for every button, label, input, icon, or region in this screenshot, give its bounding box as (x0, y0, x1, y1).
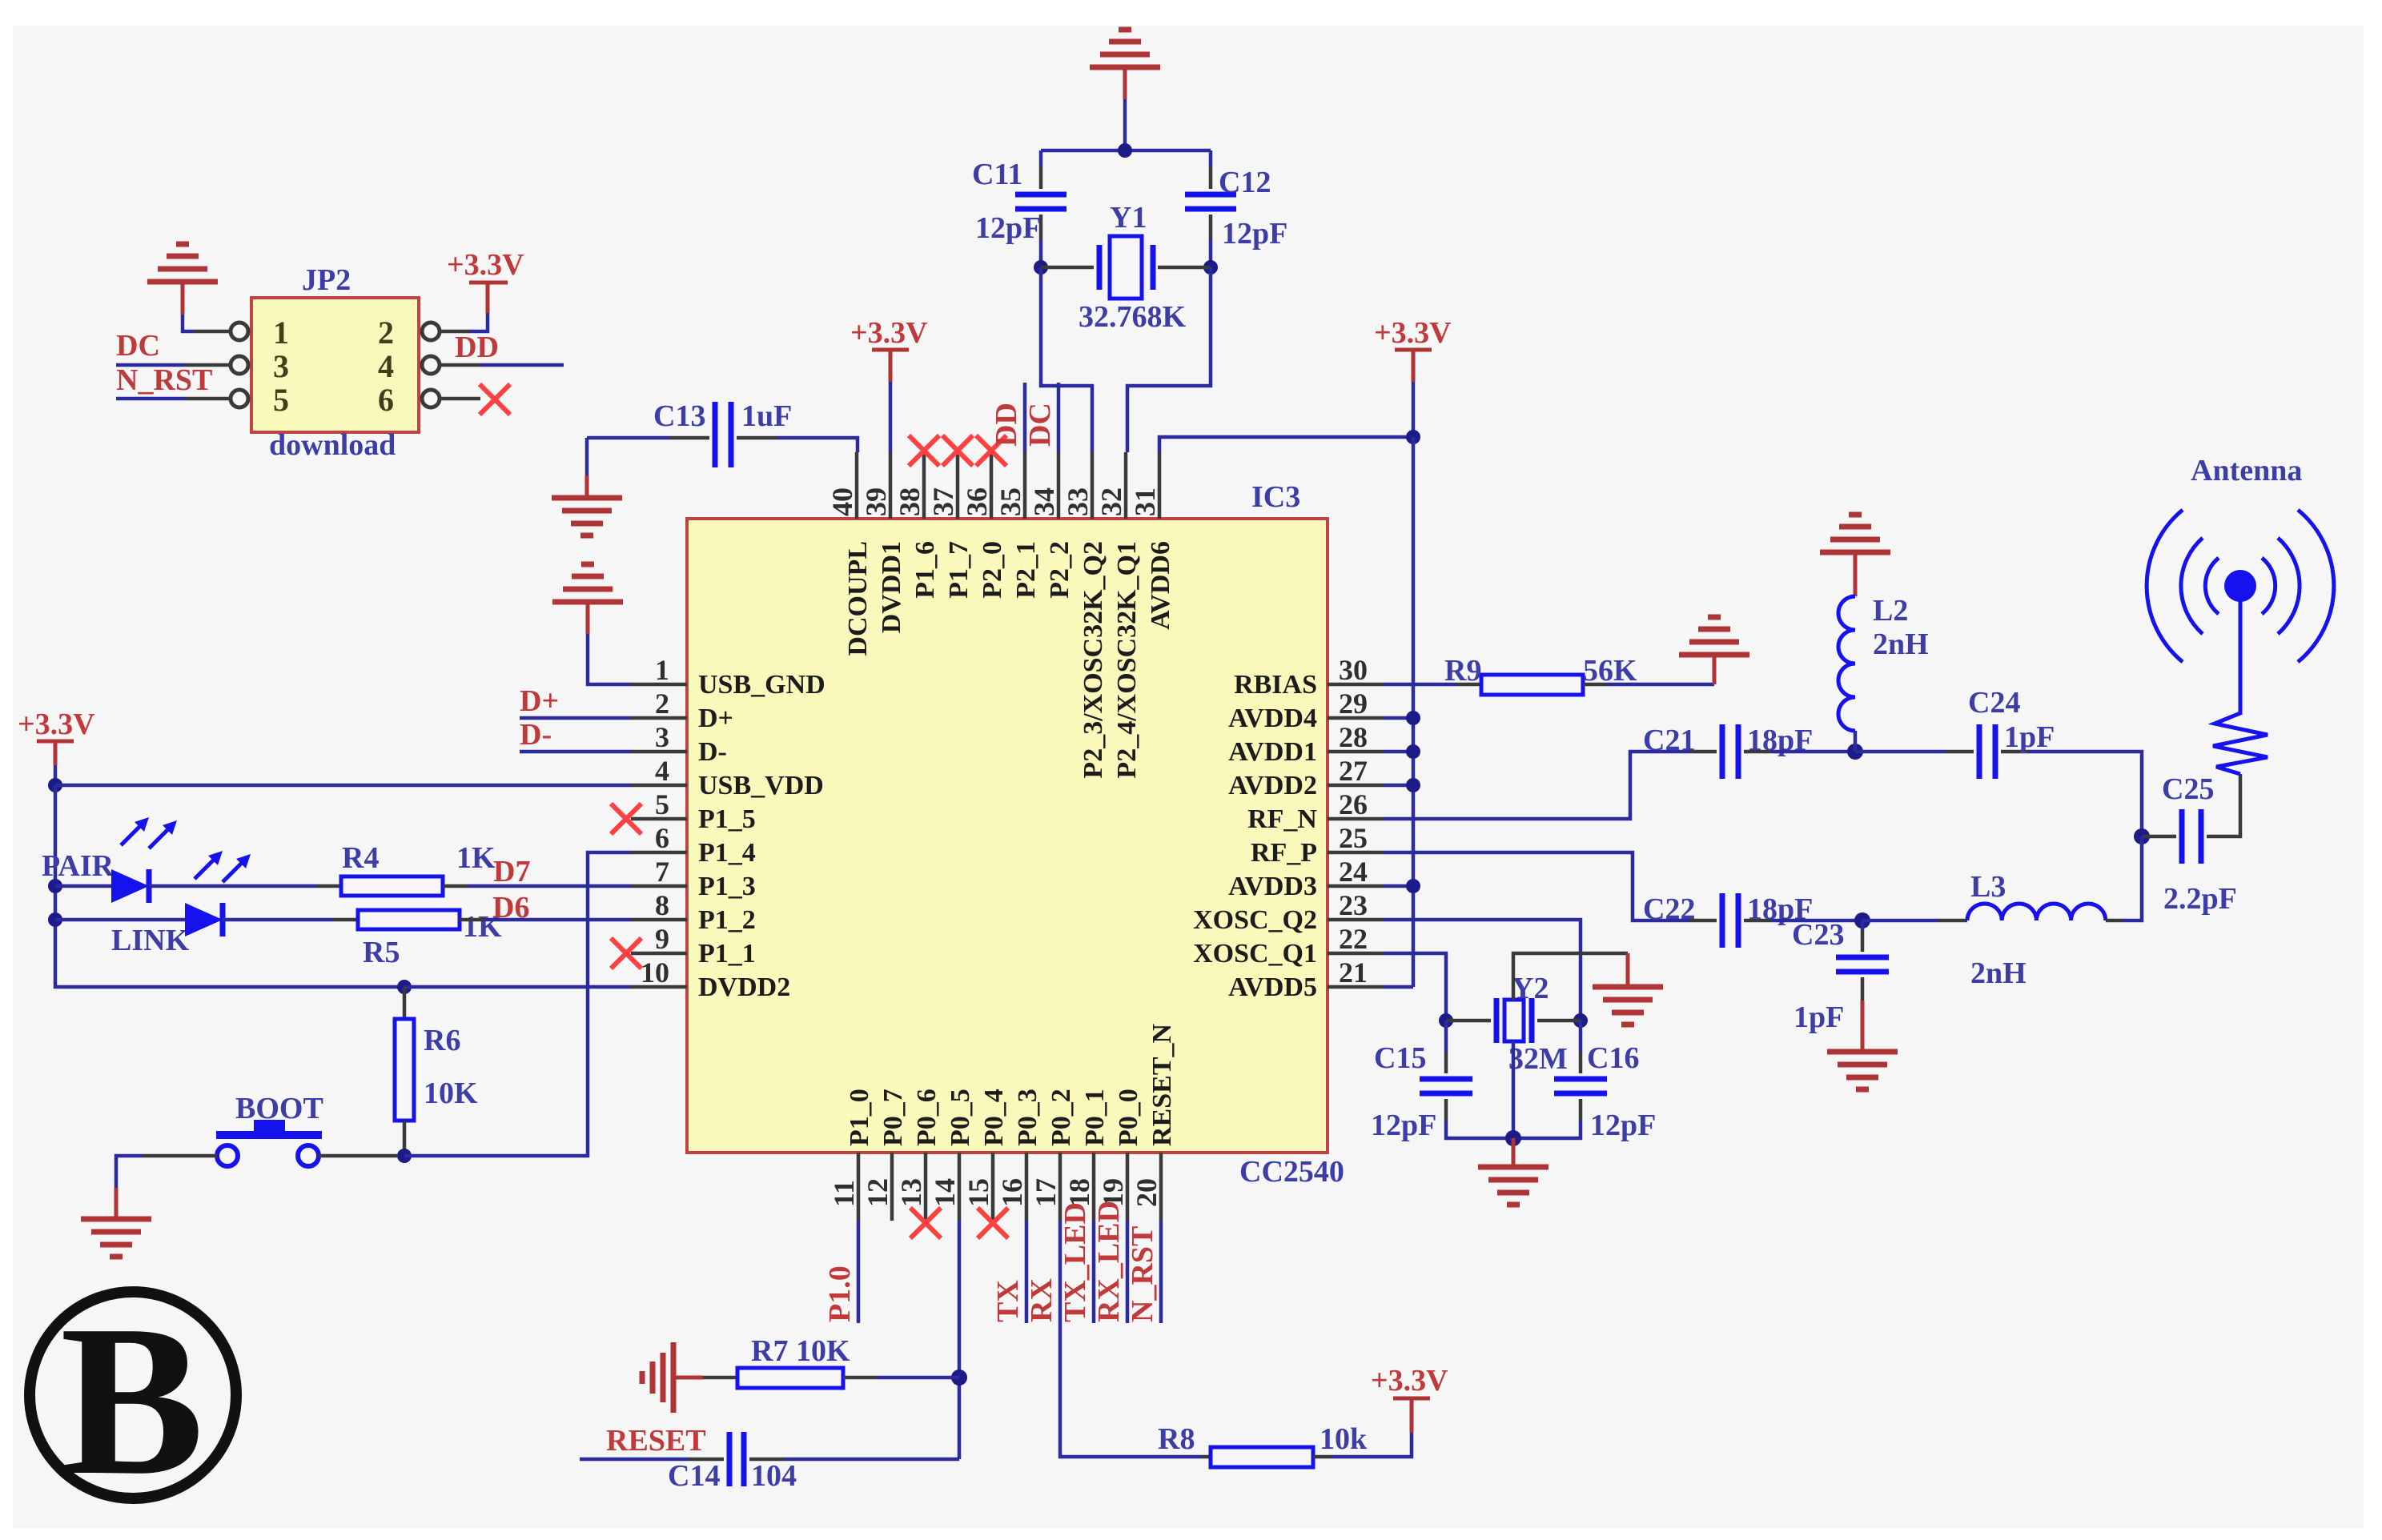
svg-text:C13: C13 (653, 399, 705, 433)
svg-text:P1_2: P1_2 (698, 905, 756, 935)
wire R9 to ground (1607, 683, 1714, 687)
wire C14 to pin14 riser (785, 1458, 959, 1462)
node +3.3V/AVDD rail (1406, 430, 1420, 444)
wire ground to pin 1 (588, 634, 631, 684)
wire pin 26 RF_N to C21 row (1384, 752, 1689, 819)
node Y2 right (1573, 1013, 1588, 1028)
svg-text:16: 16 (996, 1178, 1028, 1207)
node AVDD4 (1406, 711, 1420, 725)
no-connect X on JP2 pin6 (480, 384, 510, 415)
svg-text:C12: C12 (1219, 166, 1271, 199)
IC3 bottom pin numbers (828, 1178, 1163, 1207)
IC3 body (687, 519, 1328, 1153)
svg-text:TX: TX (991, 1280, 1025, 1322)
wire P1.0 stub (857, 1221, 861, 1323)
svg-text:USB_VDD: USB_VDD (698, 771, 824, 800)
svg-text:4: 4 (378, 348, 394, 384)
node AVDD3 (1406, 879, 1420, 893)
svg-text:+3.3V: +3.3V (850, 316, 928, 350)
svg-text:30: 30 (1339, 654, 1368, 686)
svg-text:RBIAS: RBIAS (1234, 670, 1317, 700)
svg-text:R4: R4 (342, 841, 379, 875)
svg-text:28: 28 (1339, 721, 1368, 753)
svg-text:P0_0: P0_0 (1114, 1089, 1143, 1146)
svg-text:Antenna: Antenna (2191, 454, 2302, 487)
wire pin 23 XOSC_Q2 to Y2 (1384, 920, 1581, 1021)
svg-text:R7 10K: R7 10K (751, 1334, 850, 1368)
svg-text:15: 15 (962, 1178, 994, 1207)
svg-text:DD: DD (990, 403, 1023, 447)
node C25 (2134, 828, 2150, 844)
svg-text:XOSC_Q1: XOSC_Q1 (1193, 939, 1317, 969)
node AVDD1 (1406, 744, 1420, 759)
svg-text:5: 5 (273, 382, 289, 418)
svg-text:R8: R8 (1158, 1422, 1195, 1456)
svg-text:1pF: 1pF (1794, 1001, 1844, 1034)
svg-text:RX: RX (1025, 1278, 1058, 1322)
IC3 right pin names (1193, 670, 1317, 1002)
wire left rail down (55, 785, 404, 987)
node BOOT/R6 (397, 1149, 412, 1163)
svg-text:1: 1 (273, 315, 289, 351)
svg-text:P0_4: P0_4 (979, 1089, 1009, 1146)
svg-text:XOSC_Q2: XOSC_Q2 (1193, 905, 1317, 935)
svg-text:P0_5: P0_5 (946, 1089, 975, 1146)
wire +3.3V to pin 39 (889, 382, 893, 452)
wire AVDD bus vertical (1412, 437, 1416, 987)
ground (BOOT) (81, 1219, 151, 1257)
wire JP2 pin6 stub (440, 397, 480, 401)
no-connect X pin 38 (909, 435, 939, 466)
svg-text:DVDD1: DVDD1 (877, 541, 906, 633)
svg-text:C23: C23 (1792, 918, 1844, 952)
JP2 pin circles (231, 323, 248, 340)
no-connect X pin 36 (976, 435, 1006, 466)
+3.3V symbol (R8) (1410, 1398, 1414, 1433)
wire C22 to C23 node (1771, 919, 1862, 923)
wire +3.3V to pin 4 USB_VDD (55, 784, 631, 788)
node C23/L3 (1854, 912, 1870, 928)
svg-text:7: 7 (655, 856, 669, 888)
svg-text:32M: 32M (1508, 1042, 1568, 1076)
svg-text:C16: C16 (1587, 1041, 1639, 1075)
svg-text:USB_GND: USB_GND (698, 670, 825, 700)
svg-text:TX_LED: TX_LED (1058, 1202, 1092, 1322)
svg-text:37: 37 (927, 487, 959, 516)
crystal Y1 32.768K (1041, 266, 1094, 270)
svg-text:P0_6: P0_6 (912, 1089, 942, 1146)
wire C24 to C25 node (2028, 752, 2142, 836)
IC3 top pin numbers (826, 487, 1161, 516)
svg-text:4: 4 (655, 755, 669, 787)
svg-text:AVDD3: AVDD3 (1228, 872, 1317, 901)
svg-text:P1_3: P1_3 (698, 872, 756, 901)
no-connect X pin 15 (978, 1208, 1008, 1238)
svg-text:N_RST: N_RST (116, 363, 212, 397)
resistor R6 10K (403, 987, 407, 1019)
svg-text:17: 17 (1030, 1178, 1062, 1207)
wire DC stub pin 34 (1057, 383, 1061, 452)
svg-text:P1.0: P1.0 (823, 1265, 857, 1322)
wire pin 31 AVDD6 to +3.3V rail (1159, 437, 1413, 452)
svg-text:1uF: 1uF (741, 399, 792, 433)
svg-text:P1_7: P1_7 (944, 541, 974, 599)
svg-text:40: 40 (826, 487, 858, 516)
svg-text:2nH: 2nH (1970, 956, 2027, 990)
svg-text:AVDD5: AVDD5 (1228, 973, 1317, 1002)
IC3 right pin stubs 30-21 (1328, 684, 1384, 987)
svg-text:36: 36 (961, 487, 993, 516)
ground (R9) (1679, 617, 1749, 655)
wire L3 to C25 node (2123, 836, 2142, 920)
svg-text:P0_2: P0_2 (1046, 1089, 1076, 1146)
svg-text:27: 27 (1339, 755, 1368, 787)
inductor L2 2nH (1838, 596, 1855, 731)
wire top rail (1041, 149, 1211, 153)
wire C21 to L2 node (1771, 750, 1855, 754)
wire D+ to pin 2 (520, 716, 631, 720)
svg-text:R5: R5 (363, 936, 400, 969)
wire R5 to pin 8 (484, 918, 631, 922)
ground (C23) (1861, 1001, 1865, 1052)
capacitor C13 1uF (587, 436, 669, 440)
svg-text:IC3: IC3 (1251, 480, 1300, 514)
wire AVDD pin stubs (1384, 716, 1413, 720)
svg-text:21: 21 (1339, 956, 1368, 989)
wire DD stub pin 35 (1023, 383, 1027, 452)
svg-text:22: 22 (1339, 923, 1368, 955)
IC3 top pin stubs 40-31 (857, 452, 1159, 519)
svg-text:14: 14 (929, 1178, 961, 1207)
logo B (30, 1292, 236, 1498)
svg-text:32: 32 (1095, 487, 1127, 516)
svg-text:R6: R6 (424, 1024, 460, 1057)
resistor R5 1K (358, 910, 460, 929)
svg-text:P2_4/XOSC32K_Q1: P2_4/XOSC32K_Q1 (1112, 541, 1142, 779)
svg-text:11: 11 (828, 1180, 860, 1207)
wire N_RST stub (1159, 1221, 1163, 1323)
svg-text:1: 1 (655, 654, 669, 686)
wire JP2 pin2 to +3.3V (471, 313, 488, 331)
no-connect X pin 5 (611, 804, 641, 834)
node +3.3V left (48, 778, 62, 792)
svg-text:2.2pF: 2.2pF (2163, 882, 2237, 916)
svg-text:34: 34 (1028, 487, 1060, 516)
svg-text:23: 23 (1339, 889, 1368, 921)
svg-text:P1_0: P1_0 (845, 1089, 874, 1146)
svg-text:3: 3 (655, 721, 669, 753)
svg-text:12pF: 12pF (975, 211, 1041, 245)
svg-text:1K: 1K (456, 841, 496, 875)
wire R7 to pin14 node (878, 1376, 959, 1380)
svg-text:2nH: 2nH (1873, 628, 1929, 661)
resistor R7 10K (703, 1376, 737, 1380)
svg-text:CC2540: CC2540 (1239, 1155, 1344, 1189)
svg-text:C11: C11 (972, 158, 1022, 191)
svg-text:+3.3V: +3.3V (447, 248, 524, 282)
svg-text:12pF: 12pF (1222, 217, 1287, 251)
svg-text:R9: R9 (1444, 654, 1481, 688)
svg-text:C24: C24 (1968, 686, 2020, 720)
svg-text:RF_P: RF_P (1251, 838, 1317, 868)
svg-text:104: 104 (751, 1459, 797, 1493)
resistor R4 1K (341, 876, 443, 896)
wire Y2 bottom to ground node (1512, 1041, 1516, 1138)
svg-text:C21: C21 (1643, 724, 1695, 757)
svg-text:D-: D- (520, 718, 552, 752)
svg-text:AVDD6: AVDD6 (1146, 541, 1175, 630)
wire LED D6 to R5 (223, 918, 333, 922)
connector JP2 body (251, 298, 419, 432)
svg-text:12pF: 12pF (1371, 1109, 1436, 1142)
resistor R9 56K (1481, 675, 1583, 695)
wire pin 17 down to R8 (1060, 1221, 1201, 1457)
svg-text:DD: DD (455, 331, 499, 364)
svg-text:P0_7: P0_7 (878, 1089, 908, 1146)
crystal Y2 32M (1446, 1019, 1491, 1023)
wire pin 30 RBIAS to R9 (1384, 683, 1457, 687)
svg-text:JP2: JP2 (302, 263, 351, 297)
capacitor C11 12pF (1039, 150, 1043, 166)
svg-text:DC: DC (116, 329, 160, 363)
node R7/pin14 (951, 1370, 967, 1386)
svg-text:24: 24 (1339, 856, 1368, 888)
svg-text:+3.3V: +3.3V (18, 708, 95, 741)
wire JP2 pin4 DD stub (440, 363, 480, 367)
svg-text:RESET: RESET (606, 1424, 706, 1458)
svg-text:PAIR: PAIR (42, 849, 114, 883)
svg-text:10k: 10k (1320, 1422, 1368, 1456)
svg-text:6: 6 (655, 822, 669, 854)
svg-text:Y2: Y2 (1512, 972, 1549, 1005)
wire pin 14 P0_5 down to R7/C14 (958, 1221, 962, 1459)
svg-text:C22: C22 (1643, 892, 1695, 926)
ground (JP2 pin1) (147, 244, 218, 282)
svg-text:C25: C25 (2162, 772, 2214, 806)
wire ground to C11/C12 top rail (1123, 99, 1127, 150)
ground (above Y1) (1090, 30, 1160, 67)
node C15/C16 ground (1505, 1130, 1521, 1146)
svg-text:9: 9 (655, 923, 669, 955)
wire pin 25 RF_P to C22 row (1384, 852, 1689, 920)
IC3 left pin numbers (641, 654, 669, 989)
svg-text:39: 39 (860, 487, 892, 516)
ground (Y2 case) (1593, 987, 1663, 1025)
svg-text:DVDD2: DVDD2 (698, 973, 790, 1002)
capacitor C15 12pF (1444, 1021, 1448, 1052)
wire DC to JP2 pin3 (116, 363, 185, 367)
svg-text:2: 2 (378, 315, 394, 351)
svg-text:3: 3 (273, 348, 289, 384)
svg-text:P0_3: P0_3 (1013, 1089, 1042, 1146)
svg-text:D+: D+ (698, 704, 733, 733)
svg-text:38: 38 (894, 487, 926, 516)
IC3 right pin numbers (1339, 654, 1368, 989)
IC3 bottom pin names (rotated) (845, 1024, 1177, 1146)
svg-text:B: B (60, 1281, 204, 1520)
wire L2 to node (1854, 731, 1858, 752)
svg-text:L3: L3 (1970, 870, 2006, 904)
svg-text:10: 10 (641, 956, 669, 989)
svg-text:P2_3/XOSC32K_Q2: P2_3/XOSC32K_Q2 (1079, 541, 1108, 779)
svg-text:D-: D- (698, 737, 727, 767)
capacitor C12 12pF (1209, 150, 1213, 166)
svg-text:6: 6 (378, 382, 394, 418)
svg-text:DC: DC (1023, 403, 1057, 447)
no-connect X pin 9 (611, 938, 641, 969)
svg-text:Y1: Y1 (1110, 201, 1147, 235)
IC3 left pin names (698, 670, 825, 1002)
wire R4 to pin 7 (468, 884, 631, 888)
wire Y1 right branch to pin 32 (1127, 267, 1211, 452)
svg-text:D7: D7 (493, 855, 530, 888)
wire N_RST to JP2 pin5 (116, 397, 185, 401)
node DVDD2/R6 (397, 980, 412, 994)
svg-text:13: 13 (895, 1178, 927, 1207)
wire RX_LED stub (1126, 1221, 1130, 1323)
node C12/Y1 (1203, 260, 1218, 275)
svg-text:C14: C14 (668, 1459, 720, 1493)
svg-text:AVDD4: AVDD4 (1228, 704, 1317, 733)
svg-text:P0_1: P0_1 (1080, 1089, 1110, 1146)
wire BOOT row to pin 6 riser (404, 852, 631, 1156)
IC3 top pin names (rotated) (843, 541, 1175, 779)
svg-text:download: download (269, 428, 396, 462)
svg-text:N_RST: N_RST (1126, 1226, 1159, 1322)
svg-text:26: 26 (1339, 788, 1368, 820)
wire LED D7 to R4 (149, 884, 316, 888)
svg-text:32.768K: 32.768K (1079, 300, 1187, 334)
wire pin 22 XOSC_Q1 to Y2 (1384, 953, 1446, 1021)
svg-text:+3.3V: +3.3V (1374, 316, 1452, 350)
svg-text:DCOUPL: DCOUPL (843, 541, 873, 656)
svg-text:56K: 56K (1583, 654, 1637, 688)
no-connect X pin 37 (942, 435, 973, 466)
svg-text:31: 31 (1129, 487, 1161, 516)
wire Y1 left branch to pin 33 (1041, 267, 1092, 452)
capacitor C16 12pF (1579, 1021, 1583, 1052)
svg-text:12: 12 (862, 1178, 894, 1207)
svg-text:8: 8 (655, 889, 669, 921)
node C11/Y1 (1034, 260, 1048, 275)
svg-text:L2: L2 (1873, 594, 1908, 628)
ground (above L2) (1820, 515, 1890, 552)
wire TX stub (1025, 1221, 1029, 1323)
svg-text:25: 25 (1339, 822, 1368, 854)
node Y2 left (1439, 1013, 1453, 1028)
wire Y2 case to ground (1513, 953, 1628, 1000)
IC3 left pin stubs 1-10 (631, 684, 687, 987)
wire R8 to +3.3V (1332, 1433, 1412, 1457)
svg-text:RESET_N: RESET_N (1147, 1024, 1177, 1146)
svg-text:1pF: 1pF (2004, 720, 2055, 754)
ground (R7, rotated) (642, 1342, 673, 1413)
svg-text:P1_1: P1_1 (698, 939, 756, 969)
svg-text:D+: D+ (520, 684, 559, 718)
wire D- to pin 3 (520, 750, 631, 754)
svg-text:2: 2 (655, 688, 669, 720)
node PAIR row (48, 879, 62, 893)
svg-text:12pF: 12pF (1590, 1109, 1656, 1142)
svg-text:33: 33 (1062, 487, 1094, 516)
svg-text:P2_2: P2_2 (1045, 541, 1075, 599)
svg-text:10K: 10K (424, 1077, 478, 1110)
svg-text:P1_4: P1_4 (698, 838, 756, 868)
capacitor C14 104 (580, 1458, 689, 1462)
ground (C13) (585, 438, 589, 475)
node Y1 top (1118, 143, 1132, 158)
svg-text:LINK: LINK (111, 924, 190, 957)
svg-text:+3.3V: +3.3V (1371, 1364, 1448, 1398)
ground (pin 1 USB_GND) (552, 564, 623, 602)
svg-text:RF_N: RF_N (1247, 804, 1317, 834)
node AVDD2 (1406, 778, 1420, 792)
svg-text:29: 29 (1339, 688, 1368, 720)
wire C13 to pin 40 (777, 438, 858, 452)
svg-text:P1_6: P1_6 (910, 541, 940, 599)
ground (C15/C16) (1512, 1138, 1516, 1167)
svg-text:20: 20 (1131, 1178, 1163, 1207)
svg-text:P1_5: P1_5 (698, 804, 756, 834)
svg-text:35: 35 (994, 487, 1026, 516)
svg-text:RX_LED: RX_LED (1092, 1201, 1126, 1322)
wire JP2 pin1 to ground (183, 315, 194, 331)
svg-text:AVDD1: AVDD1 (1228, 737, 1317, 767)
no-connect X pin 13 (910, 1208, 941, 1238)
node LINK row (48, 912, 62, 927)
wire BOOT to ground (116, 1156, 143, 1188)
node L2/C21/C24 (1847, 744, 1863, 760)
svg-text:AVDD2: AVDD2 (1228, 771, 1317, 800)
svg-text:P2_1: P2_1 (1011, 541, 1041, 599)
IC3 bottom pin stubs 11-20 (858, 1153, 1161, 1221)
wire TX_LED stub (1092, 1221, 1096, 1323)
wire DVDD2 row to pin 10 (404, 985, 631, 989)
svg-text:5: 5 (655, 788, 669, 820)
svg-text:C15: C15 (1374, 1041, 1426, 1075)
svg-text:P2_0: P2_0 (978, 541, 1007, 599)
